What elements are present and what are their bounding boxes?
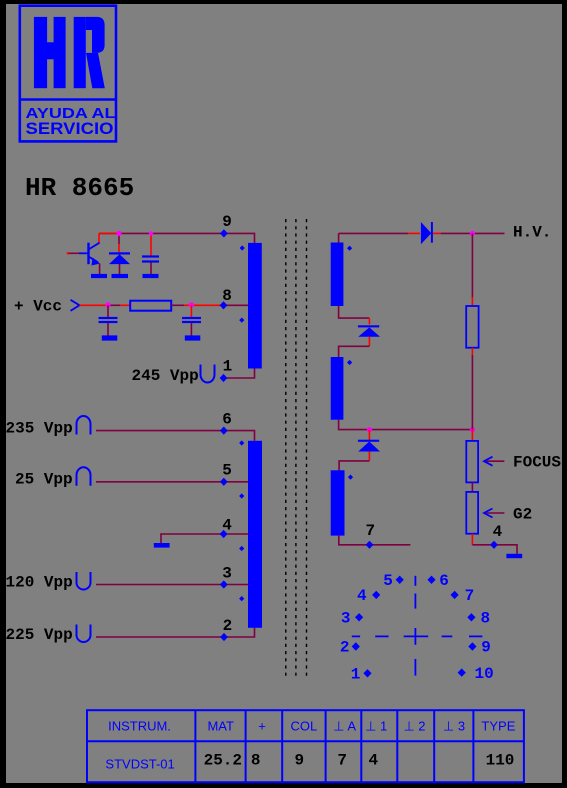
svg-text:245 Vpp: 245 Vpp <box>132 367 199 385</box>
svg-text:225 Vpp: 225 Vpp <box>6 626 73 644</box>
junction dot C <box>105 302 110 307</box>
transistor Q1 <box>79 243 100 266</box>
ground bar under D1 <box>112 274 129 278</box>
wire pin7 <box>339 536 411 545</box>
svg-text:FOCUS: FOCUS <box>513 454 561 472</box>
junction dot E <box>367 427 372 432</box>
pin 9 diamond <box>220 229 228 237</box>
wire below G2 <box>471 534 473 545</box>
svg-text:8: 8 <box>251 751 261 769</box>
wire after R1 <box>171 304 184 306</box>
svg-text:G2: G2 <box>513 505 532 523</box>
svg-text:STVDST-01: STVDST-01 <box>105 757 174 772</box>
winding W1 mark b <box>239 318 244 323</box>
svg-text:235 Vpp: 235 Vpp <box>6 420 73 438</box>
capacitor C1 leads <box>150 233 152 255</box>
wire to D5 <box>368 430 370 441</box>
svg-text:7: 7 <box>366 522 376 540</box>
core dashed line 2 <box>295 219 297 679</box>
svg-text:+ Vcc: + Vcc <box>14 298 62 316</box>
capacitor C2 leads <box>107 305 109 317</box>
ground bar bottom right <box>506 554 522 558</box>
svg-text:6: 6 <box>439 572 449 590</box>
svg-text:4: 4 <box>493 523 503 541</box>
winding S1 mark <box>347 246 352 251</box>
pin 7 diamond <box>366 541 374 549</box>
wire to focus pot <box>471 430 473 441</box>
winding W2 primary lower <box>248 441 262 628</box>
wire S1 to D4 <box>339 306 370 318</box>
table grid <box>87 710 524 782</box>
svg-text:120 Vpp: 120 Vpp <box>6 574 73 592</box>
potentiometer FOCUS <box>466 441 478 483</box>
core dashed line 1 <box>285 219 287 679</box>
wire pin6 <box>96 431 255 441</box>
junction dot A <box>116 231 121 236</box>
svg-text:9: 9 <box>222 213 232 231</box>
svg-text:9: 9 <box>294 751 304 769</box>
winding S1 <box>331 243 344 307</box>
ground bar under C3 <box>185 335 201 340</box>
waveform sag symbol pin3 <box>77 572 91 590</box>
potentiometer G2 <box>466 492 478 534</box>
transistor Q1 base lead <box>68 252 79 254</box>
winding W1 mark a <box>240 245 245 250</box>
waveform sag symbol pin1 <box>201 365 215 383</box>
svg-text:3: 3 <box>341 609 351 627</box>
svg-text:4: 4 <box>357 587 367 605</box>
svg-text:4: 4 <box>368 751 378 769</box>
svg-text:10: 10 <box>475 665 494 683</box>
svg-text:7: 7 <box>337 751 347 769</box>
wire HV top <box>339 232 408 234</box>
svg-text:25.2: 25.2 <box>204 751 242 769</box>
capacitor C3 leads <box>190 305 192 317</box>
wire pin2 <box>96 628 255 637</box>
svg-text:110: 110 <box>486 751 515 769</box>
winding W1 primary <box>248 243 262 369</box>
svg-text:5: 5 <box>222 462 232 480</box>
HV column wire <box>471 233 473 297</box>
winding S3 <box>331 470 345 535</box>
winding W2 mark c <box>239 546 244 551</box>
pin 8 diamond <box>220 301 228 309</box>
Vcc input arrow <box>71 300 80 311</box>
wire red collector segment <box>99 232 119 234</box>
diode D1 leads <box>118 233 120 244</box>
junction dot B <box>149 231 153 235</box>
diode D5 <box>358 440 380 452</box>
svg-text:3: 3 <box>222 564 232 582</box>
transistor Q1 collector lead <box>98 233 100 243</box>
core dashed line 3 <box>306 219 308 679</box>
pin 3 diamond <box>220 580 228 588</box>
wire D4 to S2 <box>368 337 370 347</box>
transistor Q1 emitter lead <box>99 264 101 275</box>
svg-text:⊥ 1: ⊥ 1 <box>365 718 387 733</box>
junction dot F <box>470 427 475 432</box>
svg-text:1: 1 <box>351 665 361 683</box>
capacitor C2 <box>99 317 118 323</box>
FOCUS arrow <box>484 457 504 466</box>
svg-text:⊥ 3: ⊥ 3 <box>443 718 465 733</box>
resistor R1 <box>130 301 171 311</box>
pin 4 diamond <box>220 530 228 538</box>
waveform sag symbol pin2 <box>77 625 91 643</box>
diode D3 HV <box>421 222 433 244</box>
capacitor C1 <box>142 255 159 262</box>
ground stub pin4 <box>154 543 170 548</box>
svg-text:MAT: MAT <box>207 718 234 733</box>
wire D5 to S3 <box>368 452 370 461</box>
pin 4 right diamond <box>490 541 498 549</box>
pin 2 diamond <box>220 633 228 641</box>
wire Vcc row <box>80 304 109 306</box>
svg-text:6: 6 <box>222 410 232 428</box>
table values <box>204 751 515 769</box>
footprint axis horizontal dashes <box>352 635 483 637</box>
winding W2 mark d <box>239 596 244 601</box>
wire between pots <box>471 482 473 492</box>
winding S3 mark <box>348 475 353 480</box>
HR logo letters <box>34 17 105 88</box>
HR logo box <box>19 6 118 142</box>
resistor R2 bleeder <box>466 306 478 348</box>
border frame <box>0 0 567 4</box>
winding S2 <box>331 357 344 420</box>
winding W2 mark b <box>239 493 244 498</box>
svg-text:SERVICIO: SERVICIO <box>26 119 114 138</box>
ground bar under Q1 <box>91 274 107 278</box>
diode D4 <box>358 325 380 336</box>
table headers <box>108 718 516 733</box>
wire pin3 <box>96 584 249 586</box>
pin 1 diamond <box>220 374 228 382</box>
svg-text:⊥ 2: ⊥ 2 <box>403 718 425 733</box>
winding S2 mark <box>347 360 352 365</box>
capacitor C3 <box>182 317 201 323</box>
svg-text:9: 9 <box>481 639 491 657</box>
wire pin1 <box>224 369 255 379</box>
wire S2 bottom <box>339 420 473 430</box>
wire pin4 bottom right <box>472 545 517 554</box>
svg-text:5: 5 <box>383 572 393 590</box>
svg-text:7: 7 <box>465 587 475 605</box>
svg-text:TYPE: TYPE <box>481 718 515 733</box>
waveform hump symbol pin6 <box>77 416 91 435</box>
svg-text:+: + <box>258 718 266 733</box>
svg-text:2: 2 <box>340 639 350 657</box>
svg-text:25 Vpp: 25 Vpp <box>15 471 73 489</box>
wire pin5 <box>96 481 249 483</box>
svg-text:2: 2 <box>223 617 233 635</box>
wire pin4 <box>161 534 249 543</box>
diode D1 <box>109 252 130 264</box>
winding S1 stem <box>338 233 340 243</box>
svg-text:INSTRUM.: INSTRUM. <box>108 718 171 733</box>
G2 arrow <box>484 509 504 518</box>
ground bar under C2 <box>102 335 118 340</box>
waveform hump symbol pin5 <box>77 467 91 486</box>
junction dot HV <box>470 231 475 236</box>
svg-text:COL: COL <box>291 718 318 733</box>
wire below R2 <box>471 348 473 355</box>
winding W2 mark a <box>239 440 244 445</box>
svg-text:1: 1 <box>223 358 233 376</box>
junction dot D <box>189 302 194 307</box>
footprint axis vertical dashes <box>414 576 416 676</box>
pin 6 diamond <box>220 427 228 435</box>
svg-text:8: 8 <box>481 609 491 627</box>
wire pin9 top <box>99 233 255 243</box>
svg-text:HR 8665: HR 8665 <box>25 173 134 203</box>
ground bar under C1 <box>143 274 159 278</box>
svg-text:H.V.: H.V. <box>513 224 551 242</box>
svg-text:⊥ A: ⊥ A <box>333 718 356 733</box>
pin 5 diamond <box>220 478 228 486</box>
